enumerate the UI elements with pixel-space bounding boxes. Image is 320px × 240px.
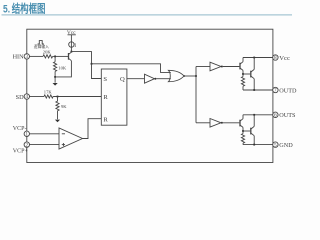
wire Q1 emitter to node H <box>242 70 244 74</box>
GND rail <box>243 144 273 146</box>
svg-text:17K: 17K <box>44 90 53 95</box>
SR latch U1 <box>101 69 127 125</box>
OUTS rail <box>243 114 273 116</box>
pulse waveform symbol <box>38 41 44 44</box>
current source I1 <box>69 42 74 47</box>
svg-text:20K: 20K <box>43 49 52 54</box>
wire SD pin to R3 <box>30 96 45 98</box>
junction dot at U3 output <box>154 78 156 80</box>
transistor Q3 <box>239 120 241 127</box>
wire comparator output to latch R2 input <box>83 119 102 139</box>
wire U5 to Q1 base <box>223 66 240 68</box>
IC boundary box <box>27 29 273 162</box>
svg-text:GND: GND <box>279 142 293 149</box>
pin 4 SD <box>24 94 29 99</box>
junction dot at U6 output <box>221 122 223 124</box>
svg-text:SD: SD <box>16 94 24 101</box>
wire VCP- pin to comparator <box>30 133 60 135</box>
wire node D down to latch S input <box>92 64 102 79</box>
svg-text:R: R <box>103 94 108 101</box>
node E junction dot <box>57 96 59 98</box>
node F junction dot <box>195 75 197 77</box>
comparator U2 <box>59 128 83 149</box>
ground arrow 2 <box>55 120 60 123</box>
wire trunk to buffer U5 <box>196 66 210 68</box>
node I junction dot <box>253 89 255 91</box>
wire HIN pin to R1 <box>30 55 44 57</box>
svg-text:S: S <box>103 76 107 83</box>
wire Q4 collector to OUTS rail <box>253 115 255 127</box>
svg-text:5. 结构框图: 5. 结构框图 <box>3 2 46 16</box>
wire Q2 collector to VCC rail <box>253 58 255 70</box>
title underline rule <box>2 14 293 16</box>
svg-text:Vcc: Vcc <box>279 55 290 62</box>
buffer U6 <box>210 119 221 128</box>
svg-text:VCP+: VCP+ <box>13 148 29 154</box>
transistor Q5 input NPN <box>68 53 70 60</box>
svg-text:VCP-: VCP- <box>13 126 27 132</box>
wire trunk to buffer U6 <box>196 122 210 124</box>
OUTD rail <box>243 89 273 91</box>
junction dot at U5 output <box>221 66 223 68</box>
resistor R6 (vertical) <box>242 131 244 134</box>
transistor Q1 <box>239 63 241 70</box>
transistor Q4 <box>250 128 252 135</box>
ground arrow 1 <box>54 77 56 83</box>
node B junction dot <box>54 76 56 78</box>
wire Q2 emitter to OUTD rail <box>253 79 255 90</box>
wire node K to Q4 base <box>243 130 250 132</box>
pin 8 VCC <box>273 55 278 60</box>
trunk wire <box>195 67 197 123</box>
svg-text:HIN: HIN <box>13 54 25 61</box>
resistor R1 20K (horizontal) <box>43 55 53 58</box>
wire Q3 collector to OUTS rail <box>242 115 244 119</box>
svg-text:逻辑输入: 逻辑输入 <box>34 44 49 49</box>
node H junction dot <box>242 73 244 75</box>
resistor R5 (vertical) <box>242 74 244 77</box>
svg-text:R: R <box>103 117 108 124</box>
svg-text:9K: 9K <box>61 104 67 109</box>
transistor Q2 <box>250 71 252 78</box>
wire Q3 emitter to node K <box>242 127 244 131</box>
pin 6 OUTS <box>273 112 278 117</box>
wire U6 to Q3 base <box>223 122 240 124</box>
wire latch Q to buffer U3 <box>127 78 145 80</box>
pin 7 OUTD <box>273 87 278 92</box>
node J junction dot <box>253 114 255 116</box>
wire Q4 emitter to GND rail <box>253 136 255 145</box>
wire R1 to base node <box>53 55 69 57</box>
svg-text:OUTS: OUTS <box>279 112 296 119</box>
wire node D over latch to OR gate top input <box>92 64 171 73</box>
svg-text:OUTD: OUTD <box>279 87 297 94</box>
svg-text:Q: Q <box>120 76 125 83</box>
resistor R3 17K (horizontal) <box>44 95 53 98</box>
wire Q5 emitter down <box>55 61 71 77</box>
pin 3 HIN <box>24 54 29 59</box>
buffer U5 <box>210 62 221 71</box>
node D junction dot <box>91 63 93 65</box>
buffer U3 <box>145 74 155 83</box>
wire collector node to S-path corner <box>71 52 91 64</box>
wire R3 to node E and latch R input <box>53 96 101 98</box>
wire U3 to OR gate lower input <box>156 78 171 80</box>
node G junction dot <box>253 57 255 59</box>
junction dot at U4 output <box>183 75 185 77</box>
pin 5 GND <box>273 142 278 147</box>
wire OR output to trunk node <box>184 75 196 77</box>
pin 1 VCP- <box>24 131 29 136</box>
resistor R4 9K (vertical) <box>57 97 59 102</box>
svg-text:I: I <box>74 43 76 49</box>
node K junction dot <box>242 130 244 132</box>
pin 2 VCP+ <box>24 142 29 147</box>
OR gate U4 <box>168 70 184 81</box>
VCC rail <box>243 57 273 59</box>
node A junction dot <box>54 56 56 58</box>
svg-text:10K: 10K <box>58 66 67 71</box>
node L junction dot <box>253 144 255 146</box>
wire VCP+ pin to comparator <box>30 144 60 146</box>
node C junction dot <box>71 51 73 53</box>
wire node H to Q2 base <box>243 73 250 75</box>
resistor R2 10K (vertical) <box>54 56 56 61</box>
wire current source to collector node <box>70 47 72 51</box>
wire Q1 collector to VCC rail <box>242 58 244 62</box>
